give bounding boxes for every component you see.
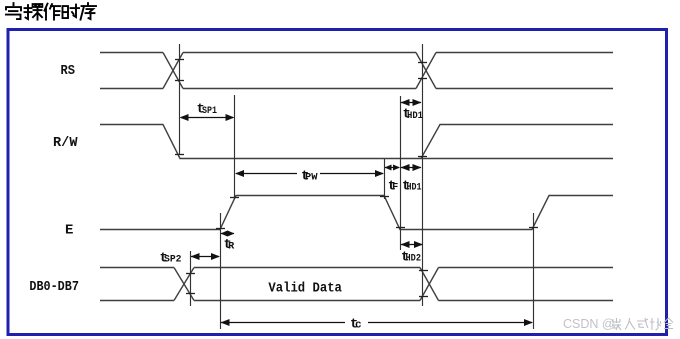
svg-text:CSDN @: CSDN @ — [563, 317, 615, 331]
svg-text:SP1: SP1 — [202, 105, 217, 117]
svg-text:R: R — [228, 240, 235, 252]
svg-text:R/W: R/W — [53, 135, 78, 151]
svg-text:HD2: HD2 — [406, 254, 422, 265]
svg-text:RS: RS — [61, 63, 76, 79]
svg-text:HD1: HD1 — [407, 183, 422, 194]
svg-text:SP2: SP2 — [164, 254, 182, 266]
svg-text:PW: PW — [305, 172, 318, 184]
svg-text:HD1: HD1 — [407, 111, 423, 122]
svg-text:E: E — [65, 223, 73, 239]
svg-text:c: c — [355, 320, 362, 332]
svg-text:F: F — [392, 182, 398, 194]
svg-text:Valid Data: Valid Data — [268, 280, 342, 296]
svg-text:DB0-DB7: DB0-DB7 — [29, 279, 79, 295]
